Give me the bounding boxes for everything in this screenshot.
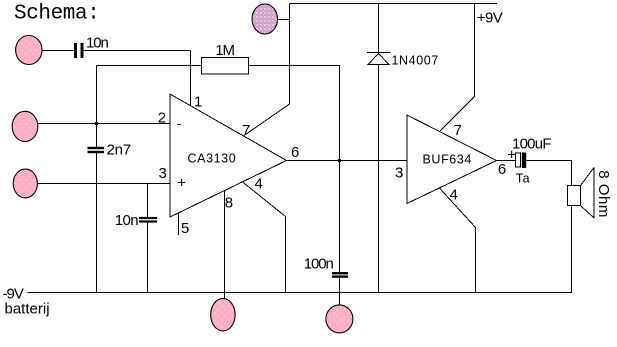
capacitor 100uF tantalum (516, 153, 527, 169)
pin 7 BUF634 (454, 122, 462, 139)
svg-text:batterij: batterij (5, 301, 50, 318)
terminal pad bottom left (211, 299, 235, 331)
terminal pad +9V top (252, 4, 277, 34)
pin 6 BUF634 (498, 161, 506, 178)
pin 5 CA3130 (181, 220, 189, 237)
value label 100uF (512, 136, 551, 153)
value label 8 Ohm rotated (595, 170, 612, 218)
svg-text:3: 3 (395, 165, 403, 182)
value label 100n (304, 256, 334, 273)
part label 1N4007 (392, 54, 439, 68)
junction node output feedback (338, 159, 342, 163)
svg-text:-: - (177, 116, 182, 133)
diode D1 1N4007 (367, 53, 391, 65)
wire 10n bottom vertical (147, 184, 149, 293)
wire -9V bottom rail (28, 292, 573, 294)
part label CA3130 (188, 152, 237, 166)
wire 100uF to speaker (526, 161, 572, 186)
svg-text:1N4007: 1N4007 (392, 54, 439, 68)
pin 3 BUF634 (395, 165, 403, 182)
capacitor 10n lower (139, 217, 157, 223)
wire pin5 stub (178, 213, 180, 235)
net label +9V (477, 9, 503, 26)
svg-text:3: 3 (159, 165, 167, 182)
inverting input minus (177, 116, 182, 133)
junction node pin2 feedback (95, 122, 99, 126)
wire output CA3130 to BUF634 (287, 160, 408, 162)
wire BUF634 output to 100uF (497, 160, 516, 162)
svg-text:5: 5 (181, 220, 189, 237)
svg-text:100n: 100n (304, 256, 334, 273)
wire 1N4007 vertical (378, 4, 380, 293)
pin 2 CA3130 (158, 109, 166, 126)
buffer U2 BUF634 triangle (407, 115, 497, 204)
value label 10n lower (115, 212, 139, 229)
svg-text:4: 4 (255, 175, 263, 192)
svg-text:10n: 10n (115, 212, 139, 229)
resistor 1M (202, 58, 249, 75)
svg-text:BUF634: BUF634 (423, 153, 472, 167)
speaker 8 Ohm (568, 168, 595, 219)
svg-text:8: 8 (225, 195, 233, 212)
wire feedback horizontal to 1M (97, 65, 203, 67)
svg-text:+: + (507, 146, 516, 163)
pin 7 CA3130 (242, 122, 250, 139)
wire top pad stub (277, 19, 290, 21)
terminal pad input1 (16, 36, 42, 65)
terminal pad bottom right (326, 305, 353, 333)
capacitor 10n input coupling (74, 43, 84, 58)
wire feedback vertical at x96 (96, 66, 98, 293)
svg-text:1M: 1M (215, 42, 234, 59)
part label BUF634 (423, 153, 472, 167)
svg-text:8 Ohm: 8 Ohm (595, 170, 612, 218)
svg-text:+9V: +9V (477, 9, 503, 26)
wire pin4 CA3130 (242, 182, 286, 293)
wire 10n cap to pin1 corner (84, 51, 191, 106)
value label 10n input (86, 35, 108, 52)
net label batterij (5, 301, 50, 318)
wire input1 to 10n cap (42, 50, 75, 52)
wire speaker to -9V rail (571, 206, 573, 293)
value label Ta (516, 172, 530, 186)
wire input3 to pin3 (38, 183, 170, 185)
wire input2 to pin2 (38, 123, 170, 125)
pin 4 CA3130 (255, 175, 263, 192)
svg-text:4: 4 (450, 186, 458, 203)
svg-text:10n: 10n (86, 35, 108, 52)
value label 2n7 (107, 142, 131, 159)
net label -9V (3, 285, 24, 302)
wire pin7 BUF634 (440, 4, 475, 132)
svg-text:+: + (177, 174, 186, 191)
wire pin8 to bottom pad (224, 190, 226, 300)
pin 1 CA3130 (194, 93, 202, 110)
non-inverting input plus (177, 174, 186, 191)
pin 6 CA3130 (291, 144, 299, 161)
wire 1M to output vertical (249, 66, 340, 306)
svg-text:CA3130: CA3130 (188, 152, 237, 166)
svg-text:6: 6 (291, 144, 299, 161)
op-amp U1 CA3130 triangle (170, 94, 287, 217)
svg-text:7: 7 (242, 122, 250, 139)
value label 1M (215, 42, 234, 59)
wire +9V top rail (290, 3, 498, 5)
svg-text:Ta: Ta (516, 172, 530, 186)
polarity + of 100uF (507, 146, 516, 163)
terminal pad input2 (12, 111, 38, 141)
terminal pad input3 (13, 169, 37, 198)
capacitor 100n (332, 272, 348, 278)
svg-text:100uF: 100uF (512, 136, 551, 153)
capacitor 2n7 (88, 147, 105, 153)
svg-text:2n7: 2n7 (107, 142, 131, 159)
svg-text:6: 6 (498, 161, 506, 178)
pin 8 CA3130 (225, 195, 233, 212)
svg-text:2: 2 (158, 109, 166, 126)
pin 3 CA3130 (159, 165, 167, 182)
title Schema: (14, 3, 99, 26)
svg-text:Schema:: Schema: (14, 3, 99, 26)
pin 4 BUF634 (450, 186, 458, 203)
wire pin7 CA3130 (244, 4, 290, 136)
svg-text:1: 1 (194, 93, 202, 110)
svg-text:7: 7 (454, 122, 462, 139)
wire pin4 BUF634 (439, 188, 476, 293)
